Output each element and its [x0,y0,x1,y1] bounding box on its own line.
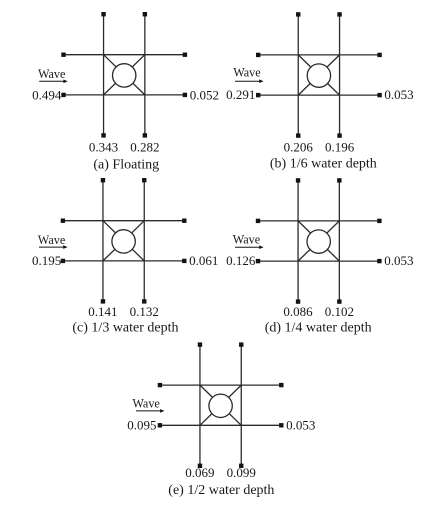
svg-text:0.141: 0.141 [88,304,117,319]
svg-text:(a) Floating: (a) Floating [93,158,159,173]
svg-text:0.053: 0.053 [384,253,413,268]
svg-text:(c) 1/3 water depth: (c) 1/3 water depth [72,320,178,335]
svg-text:0.195: 0.195 [32,253,61,268]
svg-text:(e) 1/2 water depth: (e) 1/2 water depth [168,483,274,498]
svg-text:Wave: Wave [132,396,159,410]
svg-text:0.061: 0.061 [189,253,218,268]
svg-text:Wave: Wave [38,67,65,81]
svg-text:0.126: 0.126 [226,253,256,268]
svg-text:0.282: 0.282 [130,140,159,155]
svg-text:(d) 1/4 water depth: (d) 1/4 water depth [265,320,372,335]
svg-text:0.343: 0.343 [89,140,118,155]
svg-text:0.052: 0.052 [190,87,219,102]
svg-text:Wave: Wave [233,65,260,79]
svg-text:(b) 1/6 water depth: (b) 1/6 water depth [270,157,377,172]
svg-text:0.099: 0.099 [227,465,256,480]
svg-text:0.494: 0.494 [32,87,62,102]
svg-text:0.086: 0.086 [283,304,313,319]
svg-text:Wave: Wave [233,232,260,246]
svg-text:Wave: Wave [38,233,65,247]
svg-text:0.069: 0.069 [185,465,214,480]
svg-text:0.206: 0.206 [284,140,314,155]
svg-text:0.196: 0.196 [325,140,355,155]
svg-text:0.291: 0.291 [226,87,255,102]
svg-text:0.102: 0.102 [325,304,354,319]
svg-text:0.053: 0.053 [384,87,413,102]
svg-text:0.053: 0.053 [286,418,315,433]
svg-text:0.095: 0.095 [127,418,156,433]
svg-text:0.132: 0.132 [130,304,159,319]
